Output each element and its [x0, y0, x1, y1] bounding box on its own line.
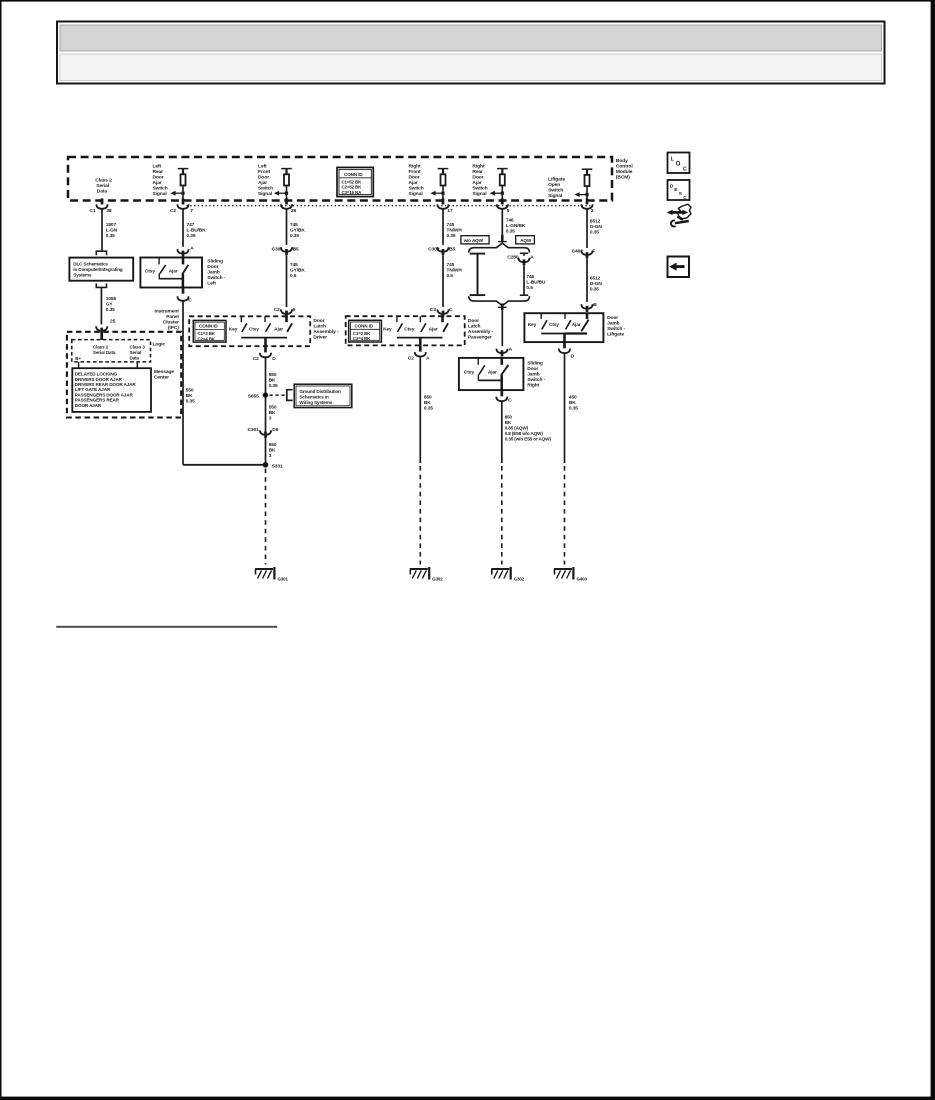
- svg-text:0.35: 0.35: [106, 307, 115, 313]
- svg-text:D-GN: D-GN: [590, 281, 602, 287]
- svg-text:C2=4 BK: C2=4 BK: [353, 336, 371, 341]
- svg-text:B5: B5: [293, 247, 299, 253]
- svg-text:TN/WH: TN/WH: [447, 228, 463, 234]
- CONN ID table (passenger latch): [349, 320, 382, 342]
- svg-text:746: 746: [506, 217, 514, 223]
- svg-text:DOOR AJAR: DOOR AJAR: [75, 403, 102, 408]
- svg-text:Switch: Switch: [548, 188, 563, 194]
- wire 747: [182, 209, 184, 247]
- ground G302: [410, 567, 429, 580]
- Message Center box: [72, 368, 151, 412]
- svg-text:Serial: Serial: [130, 350, 142, 355]
- svg-text:Ctsy: Ctsy: [249, 326, 259, 332]
- resistor: right rear door ajar pull-up: [497, 168, 508, 200]
- svg-text:3: 3: [269, 415, 272, 421]
- svg-text:Right: Right: [527, 382, 539, 388]
- svg-text:0.35: 0.35: [590, 287, 599, 293]
- svg-text:C1=2 BK: C1=2 BK: [353, 331, 371, 336]
- dashed wire to G400: [564, 466, 566, 565]
- svg-text:Switch: Switch: [472, 186, 487, 192]
- svg-text:Door: Door: [313, 318, 324, 324]
- svg-text:Assembly -: Assembly -: [313, 329, 339, 335]
- dashed ref wire to ground distribution: [270, 394, 286, 396]
- connector C2 pin A: [415, 352, 426, 357]
- stub out of driver latch: [264, 346, 267, 352]
- svg-text:Ajar: Ajar: [409, 180, 418, 186]
- connector pin A: [177, 249, 188, 254]
- wire 745 upper: [442, 209, 444, 245]
- svg-text:Left: Left: [258, 164, 267, 170]
- svg-text:Signal: Signal: [472, 191, 487, 197]
- svg-text:Sliding: Sliding: [207, 259, 223, 265]
- connector pin 3: [581, 204, 592, 209]
- dashed wire to G302: [501, 466, 503, 565]
- svg-text:in Computer/Integrating: in Computer/Integrating: [73, 267, 123, 272]
- option tag AQW: [516, 236, 535, 244]
- wire 746: [501, 209, 503, 235]
- svg-text:0.35: 0.35: [269, 383, 278, 389]
- arrow right front signal: [430, 191, 444, 196]
- svg-text:Ctsy: Ctsy: [464, 370, 474, 376]
- bus (passenger latch): [397, 337, 443, 339]
- header outer box: [57, 22, 885, 84]
- svg-text:Signal: Signal: [548, 193, 563, 199]
- header gray bar: [60, 25, 882, 51]
- svg-text:AQW: AQW: [520, 238, 532, 243]
- svg-text:0.35: 0.35: [106, 233, 115, 239]
- svg-text:Open: Open: [548, 182, 560, 188]
- svg-text:745: 745: [447, 262, 455, 268]
- svg-text:1807: 1807: [106, 222, 117, 228]
- pin C2-7 stub: [182, 198, 185, 204]
- stub into switch: [182, 251, 185, 257]
- svg-text:0.35: 0.35: [569, 405, 578, 411]
- wire 1807: [101, 209, 103, 251]
- svg-text:0.85 (AQW): 0.85 (AQW): [505, 425, 529, 430]
- svg-text:Key: Key: [528, 322, 537, 328]
- svg-text:Assembly -: Assembly -: [468, 329, 494, 335]
- svg-text:Passenger: Passenger: [468, 334, 492, 340]
- svg-text:Ctsy: Ctsy: [145, 268, 155, 274]
- svg-text:Ctsy: Ctsy: [404, 326, 414, 332]
- svg-text:0.35: 0.35: [447, 233, 456, 239]
- wire 1056: [100, 287, 102, 324]
- svg-text:CONN ID: CONN ID: [199, 324, 218, 329]
- svg-text:L-BU/BK: L-BU/BK: [187, 228, 207, 234]
- arrow liftgate signal: [574, 192, 588, 197]
- wire 745 lower: [286, 255, 288, 307]
- connector pin D: [559, 349, 570, 354]
- svg-text:Door: Door: [207, 264, 218, 270]
- svg-text:BK: BK: [269, 410, 276, 416]
- Logic inner dashed box: [72, 340, 151, 362]
- svg-text:850: 850: [424, 395, 432, 401]
- svg-text:DLC Schematics: DLC Schematics: [73, 261, 108, 266]
- connector C1 pin 38: [96, 204, 107, 209]
- svg-text:650: 650: [269, 442, 277, 448]
- svg-text:3: 3: [591, 208, 594, 214]
- pin 17 stub: [442, 198, 445, 204]
- svg-text:Body: Body: [616, 158, 628, 164]
- bracket from DLC (bottom): [96, 283, 106, 287]
- svg-text:6512: 6512: [590, 219, 601, 225]
- svg-text:Signal: Signal: [258, 191, 273, 197]
- svg-text:25: 25: [110, 319, 116, 325]
- svg-text:Right: Right: [409, 164, 421, 170]
- svg-text:550: 550: [186, 388, 194, 394]
- svg-text:D: D: [670, 183, 674, 189]
- svg-text:C2: C2: [170, 208, 176, 214]
- wire 550: [265, 357, 267, 465]
- svg-text:1056: 1056: [106, 296, 117, 302]
- bus (driver latch): [241, 337, 287, 339]
- svg-text:C301: C301: [272, 247, 284, 253]
- svg-text:C1: C1: [89, 208, 95, 214]
- svg-text:Panel: Panel: [166, 314, 179, 320]
- svg-text:Schematics in: Schematics in: [299, 395, 329, 400]
- splice S331: [263, 462, 269, 468]
- connector C301 D6: [260, 430, 271, 435]
- svg-text:Center: Center: [154, 374, 169, 380]
- svg-text:Switch: Switch: [258, 186, 273, 192]
- svg-text:D: D: [272, 356, 276, 362]
- svg-text:Serial Data: Serial Data: [93, 350, 116, 355]
- svg-text:GY/BK: GY/BK: [290, 228, 305, 234]
- svg-text:G302: G302: [514, 576, 525, 581]
- door latch assembly passenger dashed box: [346, 316, 465, 345]
- option split bracket top: [469, 243, 530, 252]
- svg-text:9: 9: [293, 307, 296, 313]
- svg-text:Ajar: Ajar: [169, 268, 178, 274]
- tick at option merge: [498, 306, 507, 308]
- connector C402 F: [581, 250, 592, 255]
- svg-text:0.35: 0.35: [590, 230, 599, 236]
- svg-text:550: 550: [269, 404, 277, 410]
- bus: [159, 278, 183, 280]
- footnote rule: [56, 626, 277, 628]
- svg-text:F: F: [592, 248, 595, 254]
- svg-text:Module: Module: [616, 169, 633, 175]
- svg-text:A: A: [530, 255, 534, 261]
- svg-text:CONN ID: CONN ID: [344, 172, 363, 177]
- svg-text:C302: C302: [428, 247, 440, 253]
- svg-text:D-GN: D-GN: [590, 224, 602, 230]
- svg-text:Instrument: Instrument: [155, 308, 180, 314]
- svg-text:17: 17: [447, 208, 453, 214]
- svg-text:Class 3: Class 3: [130, 345, 146, 350]
- wire 745 upper: [286, 209, 288, 245]
- svg-text:Door: Door: [472, 175, 483, 181]
- wire to switch: [501, 304, 504, 311]
- svg-text:C: C: [188, 298, 192, 304]
- svg-text:0.5: 0.5: [290, 273, 297, 279]
- svg-text:L-BU/BU: L-BU/BU: [526, 279, 546, 285]
- connector C280 A: [520, 252, 528, 254]
- wire 850: [419, 357, 421, 464]
- icon back-arrow box: [668, 257, 690, 278]
- icon DESC box: [668, 180, 690, 201]
- wire 745 lower: [442, 255, 444, 307]
- connector pin B: [581, 304, 592, 309]
- svg-text:CONN ID: CONN ID: [354, 324, 373, 329]
- svg-text:Left: Left: [153, 164, 162, 170]
- stub into IPC: [100, 328, 103, 334]
- svg-text:745: 745: [290, 262, 298, 268]
- svg-text:Signal: Signal: [153, 191, 168, 197]
- connector C2 pin 7: [177, 204, 188, 209]
- CONN ID table (BCM): [337, 167, 373, 196]
- svg-text:Latch: Latch: [313, 323, 326, 329]
- svg-text:Door: Door: [258, 175, 269, 181]
- svg-text:Key: Key: [229, 326, 238, 332]
- ground G301: [255, 567, 274, 580]
- svg-text:746: 746: [526, 274, 534, 280]
- wire logic to message center right: [136, 362, 138, 368]
- wire 6512 upper: [586, 209, 588, 248]
- dotted connector row line under BCM: [187, 205, 591, 207]
- svg-text:S655: S655: [248, 393, 259, 399]
- arrow right rear signal: [490, 191, 504, 196]
- stub out of liftgate switch: [563, 342, 566, 348]
- dashed wire to G301: [265, 469, 267, 565]
- svg-text:Liftgate: Liftgate: [548, 177, 565, 183]
- svg-text:GY/BK: GY/BK: [290, 267, 305, 273]
- connector pin 5: [497, 204, 508, 209]
- svg-text:Switch -: Switch -: [527, 377, 545, 383]
- svg-text:Signal: Signal: [409, 191, 424, 197]
- svg-text:745: 745: [447, 222, 455, 228]
- option merge bracket bottom: [469, 296, 530, 305]
- svg-text:Ajar: Ajar: [153, 180, 162, 186]
- svg-text:G302: G302: [432, 576, 443, 581]
- svg-text:7: 7: [190, 208, 193, 214]
- CONN ID table (driver latch): [193, 320, 226, 342]
- bracket to DLC (top): [96, 251, 106, 255]
- svg-text:Serial: Serial: [96, 183, 109, 189]
- svg-text:(IPC): (IPC): [168, 325, 179, 331]
- tick at option split: [498, 241, 507, 243]
- arrow left front signal: [274, 191, 288, 196]
- svg-text:Switch: Switch: [409, 186, 424, 192]
- svg-text:C: C: [683, 167, 687, 173]
- option path bar (w/o AQW): [477, 253, 479, 295]
- page frame borders (scan edge): [0, 0, 935, 2]
- door jamb switch liftgate box: [524, 313, 603, 342]
- svg-text:C2: C2: [253, 356, 259, 362]
- wire 850: [501, 401, 503, 463]
- pin C1-38 stub: [101, 198, 104, 204]
- ground G302 (second): [491, 567, 510, 580]
- svg-text:Ajar: Ajar: [429, 326, 438, 332]
- svg-text:Rear: Rear: [472, 169, 483, 175]
- connector C2 pin C: [437, 309, 448, 314]
- svg-text:Ground Distribution: Ground Distribution: [299, 389, 341, 394]
- svg-text:Key: Key: [383, 326, 392, 332]
- connector pin 26: [281, 204, 292, 209]
- option tag w/o AQW: [461, 236, 489, 244]
- svg-text:Right: Right: [472, 164, 484, 170]
- svg-text:C1=2 BK: C1=2 BK: [198, 331, 216, 336]
- svg-text:C402: C402: [572, 248, 584, 254]
- stub out of passenger latch: [419, 345, 422, 351]
- svg-text:C: C: [683, 195, 687, 201]
- svg-text:A: A: [426, 355, 430, 361]
- svg-text:Message: Message: [154, 369, 174, 375]
- dashed wire to G302: [419, 466, 421, 565]
- svg-text:Class 2: Class 2: [93, 344, 109, 349]
- svg-text:L-GN: L-GN: [106, 228, 118, 234]
- svg-text:G400: G400: [577, 576, 588, 581]
- svg-text:(BCM): (BCM): [616, 175, 630, 181]
- bus (sdjs right): [478, 379, 501, 381]
- svg-text:Cluster: Cluster: [163, 319, 179, 325]
- svg-text:O: O: [676, 161, 681, 168]
- svg-text:Door: Door: [468, 318, 479, 324]
- svg-text:Ajar: Ajar: [472, 180, 481, 186]
- svg-text:Switch -: Switch -: [207, 275, 225, 281]
- svg-text:C2=52 BK: C2=52 BK: [342, 185, 363, 190]
- svg-text:D: D: [571, 353, 575, 359]
- svg-text:Jamb: Jamb: [207, 270, 219, 276]
- wire 450: [564, 353, 566, 463]
- svg-text:Systems: Systems: [73, 272, 92, 277]
- connector pin A (sdjs right): [496, 349, 507, 354]
- stub out of sdjs right: [500, 390, 503, 396]
- svg-text:Jamb: Jamb: [527, 371, 539, 377]
- svg-text:Data: Data: [130, 356, 140, 361]
- header light bar: [60, 54, 882, 81]
- connector C2 pin 9: [281, 309, 292, 314]
- svg-text:Latch: Latch: [468, 323, 481, 329]
- svg-text:Ajar: Ajar: [258, 180, 267, 186]
- svg-text:BK: BK: [569, 400, 576, 406]
- wire 6512 lower: [586, 259, 588, 302]
- svg-text:38: 38: [106, 208, 112, 214]
- svg-text:BK: BK: [505, 420, 512, 425]
- svg-text:C: C: [508, 398, 512, 404]
- connector pin C (sdjs right): [496, 397, 507, 402]
- svg-text:C: C: [449, 307, 453, 313]
- svg-text:Door: Door: [607, 315, 618, 321]
- IPC dashed box: [67, 332, 181, 418]
- svg-text:0.8 (E58 w/o AQW): 0.8 (E58 w/o AQW): [505, 431, 544, 436]
- connector C301 B5: [281, 247, 292, 252]
- svg-text:L-GN/BK: L-GN/BK: [506, 223, 526, 229]
- svg-text:C280: C280: [507, 255, 519, 261]
- sliding door jamb switch right box: [459, 358, 524, 390]
- resistor: liftgate open pull-up: [582, 169, 593, 201]
- svg-text:Door: Door: [409, 175, 420, 181]
- resistor: left rear door ajar pull-up: [178, 168, 189, 200]
- svg-text:C2: C2: [430, 307, 436, 313]
- pin 3 stub: [586, 198, 589, 204]
- wire logic to message center left: [78, 362, 80, 368]
- DLC Schematics box: [69, 258, 133, 281]
- svg-text:0.5: 0.5: [447, 273, 454, 279]
- svg-text:Control: Control: [616, 164, 633, 170]
- svg-text:0.35: 0.35: [187, 233, 196, 239]
- pin 5 stub: [501, 198, 504, 204]
- connector pin 25: [96, 326, 107, 331]
- svg-text:Class 2: Class 2: [95, 178, 112, 184]
- svg-text:Ajar: Ajar: [274, 326, 283, 332]
- svg-text:Switch -: Switch -: [607, 326, 625, 332]
- wire 746 L-BU: [523, 266, 525, 296]
- svg-text:3: 3: [269, 453, 272, 459]
- svg-text:0.35 (w/o E58 or AQW): 0.35 (w/o E58 or AQW): [505, 436, 552, 441]
- bracket to ground distribution box: [287, 390, 293, 401]
- svg-text:A: A: [190, 246, 194, 252]
- svg-text:TN/WH: TN/WH: [447, 267, 463, 273]
- svg-text:C3=16 NA: C3=16 NA: [342, 190, 363, 195]
- svg-text:C2: C2: [274, 307, 280, 313]
- pin 26 stub: [285, 198, 288, 204]
- svg-text:B: B: [593, 302, 597, 308]
- svg-text:C2=4 BK: C2=4 BK: [198, 336, 216, 341]
- svg-text:0.35: 0.35: [506, 228, 515, 234]
- svg-text:Liftgate: Liftgate: [607, 331, 624, 337]
- svg-text:G301: G301: [278, 576, 289, 581]
- resistor: left front door ajar pull-up: [281, 168, 292, 200]
- svg-text:Left: Left: [207, 281, 216, 287]
- svg-text:747: 747: [187, 222, 195, 228]
- svg-text:BK: BK: [186, 393, 193, 399]
- svg-text:0.35: 0.35: [186, 399, 195, 405]
- Ground Distribution reference box: [294, 384, 352, 407]
- stub out of switch: [182, 288, 185, 294]
- svg-text:0.35: 0.35: [290, 233, 299, 239]
- icon LOC box: [668, 153, 690, 174]
- svg-text:Data: Data: [97, 189, 108, 195]
- connector C2 pin D: [260, 353, 271, 358]
- arrow left rear signal: [170, 191, 184, 196]
- svg-text:BK: BK: [269, 378, 276, 384]
- svg-text:C2: C2: [408, 355, 414, 361]
- svg-text:B+: B+: [75, 356, 81, 361]
- wire 550 down: [182, 301, 184, 465]
- svg-text:GY: GY: [106, 302, 114, 308]
- splice S655: [263, 392, 268, 397]
- svg-text:Sliding: Sliding: [527, 360, 543, 366]
- door latch assembly driver dashed box: [189, 316, 310, 346]
- svg-text:0.35: 0.35: [424, 406, 433, 412]
- svg-text:745: 745: [290, 222, 298, 228]
- svg-text:Logic: Logic: [153, 341, 166, 347]
- svg-text:Driver: Driver: [313, 334, 327, 340]
- svg-text:550: 550: [269, 372, 277, 378]
- svg-text:BK: BK: [269, 447, 276, 453]
- svg-text:Ajar: Ajar: [572, 322, 581, 328]
- resistor: right front door ajar pull-up: [438, 168, 449, 200]
- svg-text:Rear: Rear: [153, 169, 164, 175]
- svg-text:D6: D6: [272, 427, 278, 433]
- svg-text:C1=52 BK: C1=52 BK: [342, 179, 363, 184]
- svg-text:Wiring Systems: Wiring Systems: [299, 400, 332, 405]
- svg-text:BK: BK: [424, 400, 431, 406]
- wire horizontal to S331: [183, 464, 266, 466]
- svg-text:Ctsy: Ctsy: [549, 322, 559, 328]
- svg-text:w/o AQW: w/o AQW: [463, 238, 484, 243]
- svg-text:Front: Front: [409, 169, 421, 175]
- bus (liftgate): [541, 333, 587, 335]
- svg-text:0.5: 0.5: [526, 285, 533, 291]
- Body Control Module dashed box: [68, 157, 612, 201]
- svg-text:A: A: [509, 346, 513, 352]
- svg-text:Front: Front: [258, 169, 270, 175]
- sliding door jamb switch left box: [140, 258, 202, 288]
- svg-text:Ajar: Ajar: [488, 370, 497, 376]
- svg-text:26: 26: [291, 208, 297, 214]
